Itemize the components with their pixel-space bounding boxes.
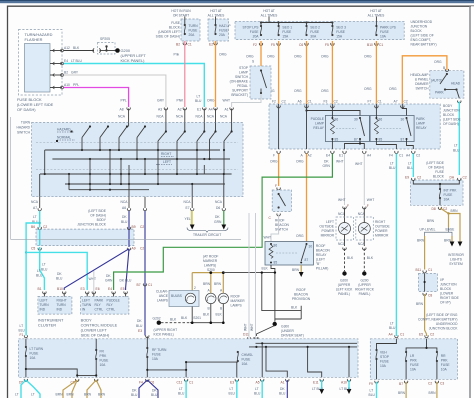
svg-text:BLU: BLU: [389, 326, 396, 330]
svg-text:(UNDER: (UNDER: [281, 329, 294, 333]
svg-text:UNDERHOOD: UNDERHOOD: [411, 20, 433, 24]
wire BRN up-level to B11: [424, 236, 426, 270]
svg-text:15A: 15A: [282, 35, 289, 39]
I/P junction block small: [423, 271, 426, 274]
svg-text:BLK: BLK: [291, 306, 298, 310]
svg-text:FUSE: FUSE: [380, 360, 390, 364]
svg-text:LEFT: LEFT: [163, 160, 171, 164]
fuse SEO 2: [305, 23, 320, 39]
svg-text:BLU: BLU: [279, 392, 286, 396]
svg-text:SEO 3: SEO 3: [336, 26, 346, 30]
svg-text:SYSTEM: SYSTEM: [449, 262, 463, 266]
svg-text:C2: C2: [140, 247, 144, 251]
bottom connectors: [375, 381, 378, 384]
svg-text:10A: 10A: [152, 357, 159, 361]
svg-text:DIMMER: DIMMER: [415, 82, 429, 86]
svg-text:A5: A5: [256, 381, 260, 385]
wire ORG SEO1: [278, 41, 280, 104]
svg-text:FUSE: FUSE: [189, 29, 199, 33]
wire ORG SEO1 to roof beacon switch: [278, 154, 280, 187]
svg-text:E1: E1: [197, 108, 201, 112]
svg-text:TURN: TURN: [189, 24, 199, 28]
svg-text:E3: E3: [230, 381, 234, 385]
svg-text:C2: C2: [430, 333, 434, 337]
svg-text:E5: E5: [121, 287, 125, 291]
svg-text:NCA: NCA: [176, 115, 184, 119]
svg-text:BLU: BLU: [41, 268, 48, 272]
svg-text:BLOCK: BLOCK: [443, 113, 455, 117]
svg-text:LT: LT: [179, 387, 183, 391]
wire BLK ladder to G300: [262, 273, 301, 319]
wire DK BLU B7 run to E3: [144, 211, 146, 336]
svg-text:KICK PANEL): KICK PANEL): [121, 58, 146, 63]
internal rail to FR PRK: [26, 369, 77, 377]
svg-text:A1: A1: [225, 108, 229, 112]
svg-text:LT: LT: [255, 387, 259, 391]
svg-text:FUSE: FUSE: [250, 30, 260, 34]
svg-text:INTERIOR: INTERIOR: [448, 253, 464, 257]
svg-text:WHT: WHT: [336, 160, 344, 164]
svg-text:HOT AT: HOT AT: [263, 9, 275, 13]
bulbs box: [169, 291, 199, 307]
svg-text:ANCE: ANCE: [159, 294, 169, 298]
svg-text:IND: IND: [57, 308, 63, 312]
svg-text:C1: C1: [400, 333, 404, 337]
fuse STOP LPS: [242, 23, 262, 39]
svg-text:CTRL: CTRL: [95, 308, 104, 312]
fuse LT TURN 10A: [25, 339, 27, 347]
svg-text:LT BLU: LT BLU: [312, 387, 323, 391]
svg-text:DK: DK: [152, 389, 157, 393]
svg-text:PROVISION: PROVISION: [292, 297, 311, 301]
svg-text:(UPPER RIGHT: (UPPER RIGHT: [154, 328, 178, 332]
svg-text:A6: A6: [298, 100, 302, 104]
svg-text:DK: DK: [106, 274, 111, 278]
svg-text:BLK: BLK: [73, 46, 80, 50]
wire YEL E7: [191, 211, 193, 225]
svg-text:85: 85: [335, 138, 339, 142]
svg-text:DK: DK: [324, 160, 329, 164]
svg-text:JUNCTION: JUNCTION: [440, 283, 457, 287]
clearance lamps label: [156, 290, 169, 303]
svg-text:10A: 10A: [242, 362, 249, 366]
svg-text:E4: E4: [108, 287, 112, 291]
fuse PARK LPS: [375, 17, 396, 39]
svg-text:BLU: BLU: [121, 220, 128, 224]
svg-text:LT BLU: LT BLU: [71, 59, 82, 63]
svg-text:LAMPS): LAMPS): [204, 264, 216, 268]
fuse SEO 1: [278, 23, 293, 39]
svg-text:C1: C1: [379, 43, 383, 47]
svg-text:E5: E5: [419, 333, 423, 337]
fuse INT PRK 10A: [439, 188, 441, 199]
svg-text:A7: A7: [394, 100, 398, 104]
svg-text:SWITCH: SWITCH: [415, 87, 429, 91]
svg-text:BRN: BRN: [416, 302, 424, 306]
wire ORG from HAZ LP fuse to switch A4: [215, 41, 217, 107]
svg-text:G200: G200: [340, 279, 348, 283]
svg-text:BLK: BLK: [216, 313, 223, 317]
svg-text:BODY: BODY: [97, 218, 107, 222]
svg-text:F: F: [275, 184, 277, 188]
blk bus from relay: [223, 272, 275, 274]
svg-text:RELAY: RELAY: [313, 126, 324, 130]
svg-text:ORG: ORG: [364, 87, 372, 91]
svg-text:PARK: PARK: [435, 91, 445, 95]
fuse CHMSL 10A: [237, 351, 239, 362]
svg-text:CTRL: CTRL: [107, 308, 116, 312]
flasher pin stubs: [50, 51, 62, 88]
svg-text:(UPPER: (UPPER: [338, 283, 351, 287]
svg-text:BLU: BLU: [369, 393, 376, 397]
svg-text:F5: F5: [325, 43, 329, 47]
svg-text:DK: DK: [215, 215, 220, 219]
svg-text:LT: LT: [33, 215, 37, 219]
svg-text:RIGHT: RIGHT: [161, 152, 171, 156]
svg-text:PARK: PARK: [95, 299, 105, 303]
svg-text:20A: 20A: [219, 33, 226, 37]
svg-text:LEFT: LEFT: [326, 220, 334, 224]
svg-text:FUSE: FUSE: [242, 358, 252, 362]
roof marker lamp circles: [206, 293, 216, 303]
svg-text:30A: 30A: [310, 35, 317, 39]
svg-text:WHT: WHT: [223, 99, 231, 103]
svg-text:C2: C2: [416, 154, 420, 158]
svg-text:STOP: STOP: [380, 355, 390, 359]
LT BLU under C11: [185, 380, 187, 398]
svg-text:ORG: ORG: [246, 55, 254, 59]
wire LT BLU dimmer to fuse block DA: [458, 102, 460, 176]
LT BLU under A10 with arrow: [348, 380, 350, 389]
fuse SEO 3: [331, 23, 346, 39]
svg-text:FUSE: FUSE: [336, 30, 346, 34]
svg-text:F5: F5: [271, 43, 275, 47]
svg-text:C2: C2: [428, 382, 432, 386]
svg-text:BLU: BLU: [389, 166, 396, 170]
svg-text:RELAY: RELAY: [316, 253, 327, 257]
fuse RR PRK 10A: [436, 351, 438, 362]
wire WHT to right mirror: [363, 154, 365, 206]
svg-text:& PANEL: & PANEL: [415, 78, 429, 82]
svg-text:LT: LT: [197, 95, 201, 99]
fuse LR PRK 10A: [405, 351, 407, 362]
svg-text:B10: B10: [367, 43, 373, 47]
svg-text:10A: 10A: [410, 368, 417, 372]
svg-text:LIGHTS: LIGHTS: [450, 258, 463, 262]
svg-text:10A: 10A: [444, 198, 451, 202]
svg-text:RF TURN: RF TURN: [152, 348, 167, 352]
svg-text:E1: E1: [339, 154, 343, 158]
svg-text:LT: LT: [230, 387, 234, 391]
svg-text:E7: E7: [186, 206, 190, 210]
svg-text:KICK PANEL): KICK PANEL): [154, 333, 174, 337]
svg-text:TURN: TURN: [21, 121, 31, 125]
svg-text:NORMAL: NORMAL: [57, 136, 71, 140]
svg-text:BLU: BLU: [36, 274, 43, 278]
svg-text:WHT: WHT: [264, 236, 272, 240]
svg-text:HOT AT: HOT AT: [370, 9, 382, 13]
svg-text:(AUTO): (AUTO): [431, 79, 442, 83]
svg-text:E4: E4: [64, 59, 68, 63]
svg-text:ORG: ORG: [434, 60, 442, 64]
bottom edge connectors: [24, 379, 27, 382]
svg-text:(UPPER: (UPPER: [358, 283, 371, 287]
svg-text:ORG: ORG: [219, 53, 227, 57]
svg-text:F2: F2: [272, 100, 276, 104]
svg-text:A6: A6: [122, 206, 126, 210]
svg-text:B7: B7: [137, 283, 141, 287]
svg-text:BRN: BRN: [398, 391, 406, 395]
svg-text:BRN: BRN: [444, 239, 452, 243]
svg-text:LEFT: LEFT: [82, 299, 90, 303]
svg-text:BRN: BRN: [84, 393, 92, 397]
svg-text:E6: E6: [96, 287, 100, 291]
svg-text:10A: 10A: [441, 368, 448, 372]
svg-text:B9: B9: [132, 225, 136, 229]
svg-text:SWITCH: SWITCH: [275, 228, 289, 232]
bus inside wide box: [261, 17, 332, 23]
svg-text:B2: B2: [176, 43, 180, 47]
svg-text:LT: LT: [390, 162, 394, 166]
wire ORG dimmer switch feed: [402, 56, 447, 104]
svg-text:MARKER: MARKER: [203, 259, 218, 263]
svg-text:BLU: BLU: [131, 393, 138, 397]
svg-text:PRK: PRK: [410, 359, 418, 363]
svg-text:HOT AT: HOT AT: [210, 9, 222, 13]
svg-text:UP-LEVEL: UP-LEVEL: [420, 228, 436, 232]
svg-text:D11: D11: [243, 333, 249, 337]
svg-text:TRAILER CIRCUIT: TRAILER CIRCUIT: [193, 233, 221, 237]
svg-text:STOP LPS: STOP LPS: [242, 26, 259, 30]
svg-text:LAMPS: LAMPS: [231, 304, 243, 308]
svg-text:10A: 10A: [380, 364, 387, 368]
svg-text:DK: DK: [132, 389, 137, 393]
svg-text:Pnk: Pnk: [174, 53, 180, 57]
fuse block under-dash label: [156, 21, 181, 39]
svg-text:RIGHT SIDE: RIGHT SIDE: [440, 296, 460, 300]
wire BLK relay 85 to ground bus: [271, 265, 275, 273]
svg-text:PEDAL: PEDAL: [237, 84, 248, 88]
svg-text:BULBS: BULBS: [171, 294, 183, 298]
wire LT BLU A4/C2 to fuse block E9: [412, 154, 414, 178]
svg-text:20A: 20A: [189, 33, 196, 37]
svg-text:GRY: GRY: [157, 99, 165, 103]
svg-text:RIGHT: RIGHT: [57, 299, 67, 303]
svg-text:GRN: GRN: [105, 279, 113, 283]
svg-text:RLY: RLY: [95, 303, 102, 307]
svg-text:NCA: NCA: [118, 115, 126, 119]
svg-text:BLU: BLU: [254, 392, 261, 396]
svg-text:BODY: BODY: [443, 104, 453, 108]
svg-text:BLU: BLU: [56, 277, 63, 281]
svg-text:FUSE: FUSE: [380, 30, 390, 34]
svg-text:BLU: BLU: [151, 393, 158, 397]
svg-text:BRN: BRN: [56, 393, 64, 397]
svg-text:C2: C2: [463, 176, 467, 180]
svg-text:NCA: NCA: [157, 115, 165, 119]
wire LT BLU E4: [64, 64, 205, 108]
svg-text:SUPPORT: SUPPORT: [232, 89, 248, 93]
svg-text:PANEL): PANEL): [359, 292, 371, 296]
svg-text:A10: A10: [64, 83, 70, 87]
svg-text:ORG: ORG: [321, 89, 329, 93]
svg-text:LT: LT: [370, 389, 374, 393]
svg-text:RELAY: RELAY: [416, 126, 427, 130]
svg-text:PARK LPS: PARK LPS: [380, 26, 397, 30]
left outside power mirror: [319, 198, 354, 296]
wire PNK from TURN fuse to switch A2: [184, 41, 186, 107]
svg-text:LT: LT: [454, 144, 458, 148]
svg-text:(LEFT: (LEFT: [316, 258, 325, 262]
svg-text:POWER: POWER: [375, 229, 388, 233]
svg-text:C1: C1: [188, 43, 192, 47]
svg-text:(LEFT SIDE: (LEFT SIDE: [88, 209, 107, 213]
svg-text:OF DASH): OF DASH): [428, 166, 444, 170]
pin labels: [64, 46, 82, 87]
wide fuse box STOP/SEO: [235, 21, 404, 39]
svg-text:OF DASH): OF DASH): [90, 214, 106, 218]
svg-text:GRN: GRN: [323, 164, 331, 168]
svg-text:PILLAR): PILLAR): [316, 267, 328, 271]
wire BRN feeds: [191, 273, 193, 291]
svg-text:C6: C6: [299, 43, 303, 47]
svg-text:LT TURN: LT TURN: [30, 347, 44, 351]
svg-text:RIGHT: RIGHT: [375, 220, 385, 224]
svg-text:DK: DK: [57, 272, 62, 276]
svg-text:(ON-BRAKE: (ON-BRAKE: [230, 80, 249, 84]
svg-text:BLU: BLU: [453, 149, 460, 153]
svg-text:C1: C1: [378, 100, 382, 104]
svg-text:ORG: ORG: [296, 234, 304, 238]
LT BLU under E3: [236, 380, 238, 398]
svg-text:HEADLAMP: HEADLAMP: [410, 73, 429, 77]
svg-text:FUSE: FUSE: [171, 21, 181, 25]
wire LT BLU A7: [39, 211, 41, 228]
svg-text:BLU: BLU: [195, 99, 202, 103]
svg-text:BRN: BRN: [292, 268, 300, 272]
svg-text:ORG: ORG: [321, 55, 329, 59]
svg-text:UNDERHOOD: UNDERHOOD: [436, 322, 458, 326]
svg-text:B1: B1: [38, 287, 42, 291]
block bottom connectors: [277, 151, 280, 154]
svg-text:DK: DK: [122, 215, 127, 219]
svg-text:DA: DA: [450, 176, 455, 180]
fuse RF TURN 10A: [146, 336, 148, 348]
svg-text:PNK: PNK: [177, 99, 185, 103]
svg-text:BLOCK: BLOCK: [433, 175, 445, 179]
svg-text:D6: D6: [216, 206, 220, 210]
svg-text:A10: A10: [341, 381, 347, 385]
svg-text:PUDDLE: PUDDLE: [107, 299, 121, 303]
wire DK GRN D6: [223, 211, 225, 225]
wire WHT stop switch to switch A1: [232, 94, 261, 107]
svg-text:BRN: BRN: [98, 393, 106, 397]
svg-text:GRN: GRN: [214, 220, 222, 224]
internal rails right part: [249, 343, 357, 347]
svg-text:MARKER: MARKER: [231, 299, 246, 303]
svg-text:B10: B10: [57, 287, 63, 291]
svg-text:PRK: PRK: [441, 359, 449, 363]
svg-text:SWITCH: SWITCH: [235, 75, 249, 79]
svg-text:C2: C2: [334, 100, 338, 104]
wire GRY B2: [64, 75, 166, 107]
svg-text:LR: LR: [410, 354, 415, 358]
svg-text:NCA: NCA: [184, 200, 192, 204]
svg-text:ORG: ORG: [207, 99, 215, 103]
wire BRN relay 87 to roof beacon provision: [300, 265, 302, 272]
svg-text:NCA: NCA: [358, 242, 366, 246]
svg-text:ORG: ORG: [294, 89, 302, 93]
svg-text:D8: D8: [432, 207, 436, 211]
svg-text:87: 87: [305, 258, 309, 262]
svg-text:FUSE: FUSE: [441, 363, 451, 367]
svg-text:ORG: ORG: [364, 55, 372, 59]
svg-text:A8: A8: [120, 108, 124, 112]
svg-text:SWITCH: SWITCH: [17, 131, 31, 135]
svg-text:2: 2: [194, 286, 196, 290]
wire ORG SEO3: [331, 41, 333, 104]
wire DK BLU branch to BCM: [126, 249, 129, 290]
svg-text:F: F: [347, 204, 349, 208]
svg-text:C5: C5: [31, 247, 35, 251]
svg-text:NCA: NCA: [215, 200, 223, 204]
svg-text:F: F: [367, 204, 369, 208]
svg-text:G300: G300: [281, 325, 289, 329]
svg-text:LT: LT: [390, 322, 394, 326]
svg-text:FUSE: FUSE: [444, 193, 454, 197]
svg-text:BLOCK: BLOCK: [440, 287, 452, 291]
svg-text:HAZARD: HAZARD: [16, 126, 30, 130]
connector below TURN fuse: [183, 43, 186, 46]
svg-text:LAMP: LAMP: [315, 122, 325, 126]
svg-text:E9: E9: [405, 176, 409, 180]
svg-text:TURN: TURN: [40, 303, 50, 307]
svg-text:BEACON: BEACON: [275, 223, 290, 227]
svg-text:A7: A7: [33, 206, 37, 210]
wires WHT twin drop to D11: [249, 213, 256, 347]
svg-text:GRY: GRY: [71, 71, 79, 75]
svg-text:PARK: PARK: [416, 117, 426, 121]
svg-text:A2: A2: [308, 154, 312, 158]
svg-text:DK: DK: [137, 319, 142, 323]
svg-text:FUSE: FUSE: [310, 30, 320, 34]
svg-text:BEACON: BEACON: [316, 249, 331, 253]
svg-text:BRN: BRN: [417, 239, 425, 243]
fuse box TURN FUSE 20A: [181, 17, 200, 42]
svg-text:LAMP: LAMP: [416, 122, 426, 126]
svg-text:SIDE OF DASH): SIDE OF DASH): [156, 35, 180, 39]
svg-text:86: 86: [335, 118, 339, 122]
svg-text:F2: F2: [253, 43, 257, 47]
ground G200: [115, 48, 146, 63]
svg-text:LT: LT: [408, 162, 412, 166]
fuse VEH STOP 10A: [375, 349, 377, 360]
svg-text:HAZ LP: HAZ LP: [219, 24, 231, 28]
svg-text:LAMP: LAMP: [239, 71, 249, 75]
svg-text:E3: E3: [81, 287, 85, 291]
page right edge: [469, 6, 471, 398]
svg-text:BLU: BLU: [19, 329, 26, 333]
ground G202: [157, 321, 161, 325]
wire ORG stop lps fuse to stop lamp switch: [260, 41, 262, 66]
svg-text:TURN: TURN: [82, 303, 92, 307]
svg-text:ROOF: ROOF: [296, 288, 306, 292]
svg-text:C2: C2: [404, 100, 408, 104]
svg-text:HOT IN RUN: HOT IN RUN: [171, 9, 191, 13]
svg-text:30: 30: [309, 245, 313, 249]
background divider lines: [10, 117, 12, 239]
svg-text:PPL: PPL: [121, 99, 127, 103]
